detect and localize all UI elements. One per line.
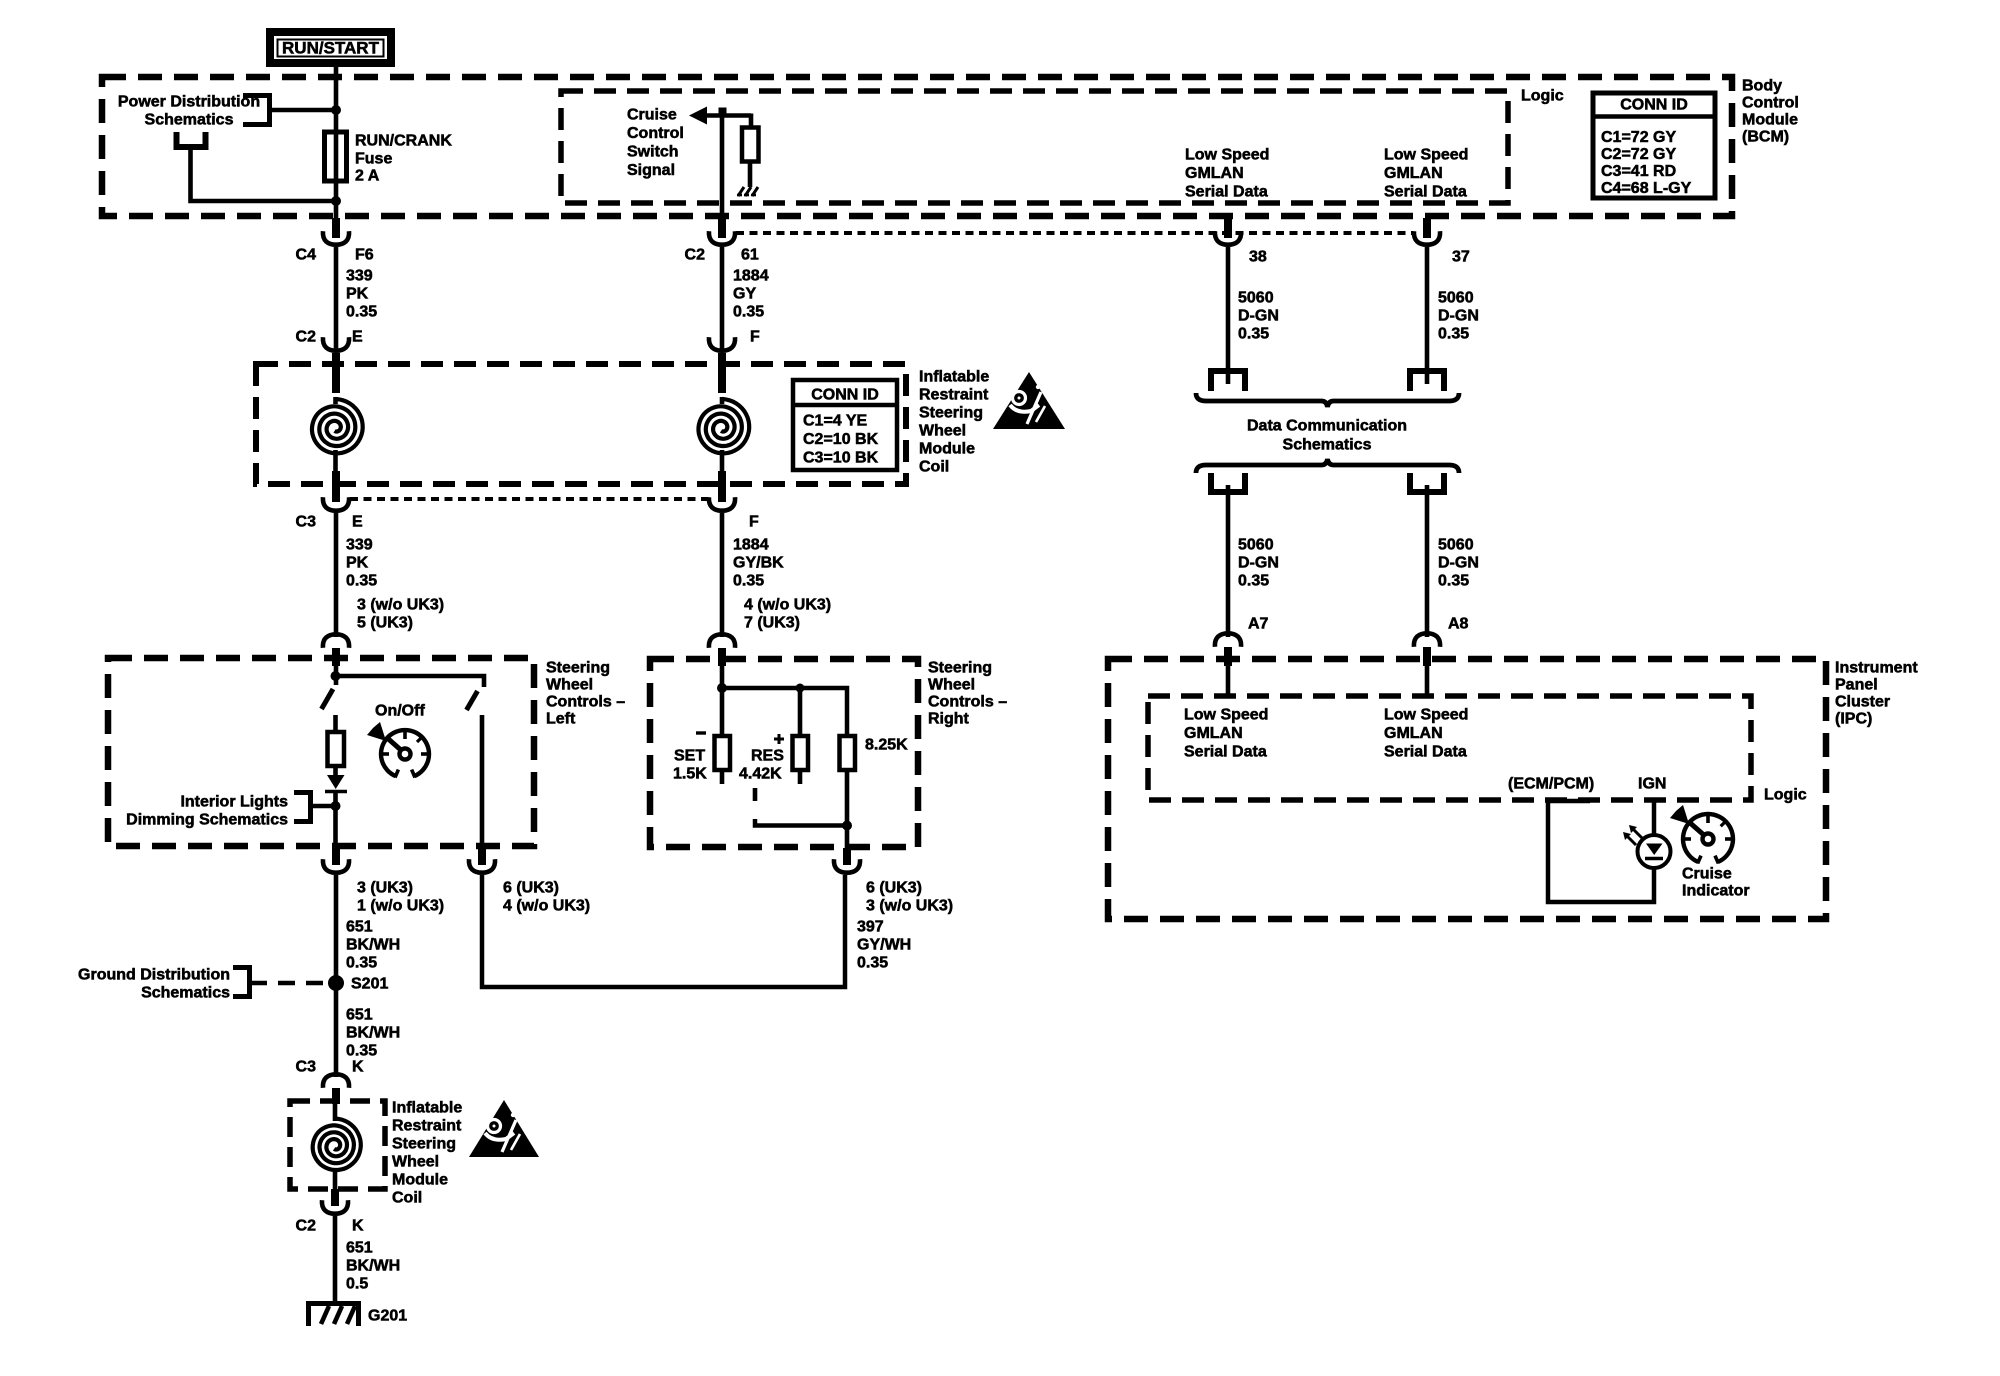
- SRS warning triangle (top): [993, 372, 1065, 429]
- svg-text:C1=72 GY: C1=72 GY: [1601, 129, 1676, 146]
- svg-text:397: 397: [857, 919, 884, 936]
- wire 651 BK/WH 0.5: [333, 1216, 338, 1303]
- underbrace to data comm: [1196, 393, 1459, 407]
- clockspring coil symbol left: [312, 399, 363, 453]
- svg-text:0.35: 0.35: [1438, 573, 1469, 590]
- wire SET branch: [720, 688, 725, 736]
- svg-text:(BCM): (BCM): [1742, 129, 1789, 146]
- connector stub pin37: [1423, 218, 1431, 238]
- svg-text:0.5: 0.5: [346, 1276, 368, 1293]
- svg-text:Power Distribution: Power Distribution: [118, 94, 260, 111]
- svg-text:0.35: 0.35: [1238, 573, 1269, 590]
- clockspring coil symbol bottom: [313, 1119, 361, 1171]
- svg-text:E: E: [352, 514, 363, 531]
- svg-text:339: 339: [346, 537, 373, 554]
- svg-text:GMLAN: GMLAN: [1185, 165, 1244, 182]
- svg-text:GMLAN: GMLAN: [1384, 725, 1443, 742]
- coil connector stub F: [718, 353, 726, 393]
- svg-text:5060: 5060: [1438, 537, 1474, 554]
- junction dot dimming tap: [331, 801, 341, 811]
- svg-text:Serial Data: Serial Data: [1184, 744, 1267, 761]
- fuse RUN/CRANK 2A: [325, 132, 347, 181]
- wire below 8.25K resistor: [845, 770, 850, 826]
- svg-text:Wheel: Wheel: [919, 423, 966, 440]
- svg-text:C2: C2: [296, 329, 317, 346]
- svg-text:Coil: Coil: [392, 1190, 422, 1207]
- overbrace from data comm: [1196, 459, 1459, 473]
- svg-text:Steering: Steering: [392, 1136, 456, 1153]
- connector arc pin38: [1215, 231, 1241, 245]
- svg-text:Signal: Signal: [627, 162, 675, 179]
- svg-text:Right: Right: [928, 711, 970, 728]
- SRS warning triangle (bottom): [469, 1100, 539, 1157]
- svg-text:4 (w/o UK3): 4 (w/o UK3): [744, 597, 831, 614]
- svg-text:Wheel: Wheel: [928, 677, 975, 694]
- svg-text:1 (w/o UK3): 1 (w/o UK3): [357, 898, 444, 915]
- CONN ID table of BCM: [1593, 93, 1715, 198]
- svg-text:Panel: Panel: [1835, 677, 1878, 694]
- svg-text:651: 651: [346, 1240, 373, 1257]
- svg-text:G201: G201: [368, 1308, 407, 1325]
- SET resistor 1.5K: [715, 736, 731, 770]
- junction tick at cruise signal tee: [719, 108, 727, 117]
- svg-text:Data Communication: Data Communication: [1247, 418, 1407, 435]
- svg-text:Restraint: Restraint: [392, 1118, 462, 1135]
- connector stub C4/F6: [332, 218, 340, 238]
- svg-text:Switch: Switch: [627, 144, 679, 161]
- svg-text:8.25K: 8.25K: [865, 737, 908, 754]
- svg-text:D-GN: D-GN: [1238, 555, 1279, 572]
- svg-text:1.5K: 1.5K: [673, 766, 707, 783]
- svg-text:C3: C3: [296, 1059, 317, 1076]
- svg-text:3 (w/o UK3): 3 (w/o UK3): [357, 597, 444, 614]
- svg-text:0.35: 0.35: [857, 955, 888, 972]
- wire 5060 lower-left: [1226, 485, 1231, 637]
- svg-text:Steering: Steering: [928, 660, 992, 677]
- connector stub into SWC-left: [332, 648, 340, 666]
- svg-text:Steering: Steering: [546, 660, 610, 677]
- svg-text:5060: 5060: [1238, 290, 1274, 307]
- connector stub SWC-left out A: [332, 848, 340, 865]
- svg-text:Module: Module: [1742, 112, 1798, 129]
- cruise indicator drive loop: [1548, 799, 1590, 804]
- clockspring coil symbol right: [699, 399, 750, 453]
- svg-text:3 (w/o UK3): 3 (w/o UK3): [866, 898, 953, 915]
- Power Distribution bracket symbol: [243, 96, 270, 125]
- svg-text:339: 339: [346, 268, 373, 285]
- wire into SWC-right: [720, 666, 725, 690]
- coil connector arc (F): [709, 337, 735, 351]
- svg-text:CONN ID: CONN ID: [811, 387, 879, 404]
- connector stub into SWC-right: [718, 648, 726, 666]
- svg-text:F6: F6: [355, 247, 374, 264]
- svg-text:BK/WH: BK/WH: [346, 1025, 400, 1042]
- svg-text:1884: 1884: [733, 537, 769, 554]
- dashed wire bracket to S201: [250, 981, 268, 986]
- wire right branch down: [480, 715, 485, 848]
- svg-text:C3=41 RD: C3=41 RD: [1601, 163, 1676, 180]
- svg-text:Serial Data: Serial Data: [1185, 184, 1268, 201]
- svg-text:PK: PK: [346, 555, 369, 572]
- connector stub out of bottom coil: [331, 1189, 339, 1206]
- svg-text:Inflatable: Inflatable: [392, 1100, 462, 1117]
- coil exit connector arc F: [709, 497, 735, 511]
- svg-text:C2=10 BK: C2=10 BK: [803, 431, 879, 448]
- svg-text:C4: C4: [296, 247, 317, 264]
- svg-text:Restraint: Restraint: [919, 387, 989, 404]
- RES resistor 4.42K: [793, 736, 809, 770]
- svg-text:K: K: [352, 1218, 364, 1235]
- wire 339 PK lower: [334, 513, 339, 637]
- svg-text:0.35: 0.35: [346, 573, 377, 590]
- svg-text:F: F: [749, 514, 759, 531]
- connector stub SWC-left out B: [478, 848, 486, 865]
- svg-text:C3: C3: [296, 514, 317, 531]
- On/Off gauge icon: [381, 730, 429, 776]
- wire resistor to wiper arrow: [333, 766, 338, 776]
- svg-text:F: F: [750, 329, 760, 346]
- svg-text:37: 37: [1452, 249, 1470, 266]
- ground symbol inside BCM: [738, 187, 744, 196]
- wire across top of on/off switch: [336, 676, 485, 687]
- svg-text:Schematics: Schematics: [145, 112, 234, 129]
- svg-text:Serial Data: Serial Data: [1384, 184, 1467, 201]
- svg-text:0.35: 0.35: [346, 304, 377, 321]
- wire 339 PK from C4-F6 down: [334, 247, 339, 349]
- svg-text:4.42K: 4.42K: [739, 766, 782, 783]
- minus sign above SET: [696, 731, 706, 734]
- connector arc SWC-left out B: [469, 859, 495, 873]
- svg-text:3 (UK3): 3 (UK3): [357, 880, 413, 897]
- svg-text:K: K: [352, 1059, 364, 1076]
- junction dot switch common: [842, 821, 852, 831]
- svg-text:5 (UK3): 5 (UK3): [357, 615, 413, 632]
- svg-text:0.35: 0.35: [1438, 326, 1469, 343]
- svg-text:BK/WH: BK/WH: [346, 937, 400, 954]
- wiper arrow onto bar: [327, 775, 345, 789]
- svg-text:C1=4 YE: C1=4 YE: [803, 413, 868, 430]
- svg-text:RUN/START: RUN/START: [282, 39, 380, 58]
- svg-text:C2: C2: [685, 247, 706, 264]
- plus sign above RES: [778, 734, 781, 744]
- svg-text:Indicator: Indicator: [1682, 883, 1750, 900]
- svg-text:BK/WH: BK/WH: [346, 1258, 400, 1275]
- cruise indicator LED diode: [1646, 844, 1663, 856]
- wire 1884 GY/BK lower: [720, 513, 725, 637]
- svg-text:Module: Module: [919, 441, 975, 458]
- svg-text:S201: S201: [351, 976, 388, 993]
- junction dot below fuse: [331, 196, 341, 206]
- coil exit dotted gang line: [350, 497, 708, 501]
- svg-text:PK: PK: [346, 286, 369, 303]
- cruise indicator wedge arrow: [1670, 805, 1689, 824]
- svg-text:(ECM/PCM): (ECM/PCM): [1508, 776, 1594, 793]
- on/off switch blade left: [322, 689, 334, 709]
- wire below SET resistor: [720, 770, 725, 784]
- svg-text:GMLAN: GMLAN: [1184, 725, 1243, 742]
- svg-text:RES: RES: [751, 748, 784, 765]
- svg-text:Left: Left: [546, 711, 576, 728]
- svg-text:CONN ID: CONN ID: [1620, 97, 1688, 114]
- connector arc pin37: [1414, 231, 1440, 245]
- signal arrow pointing left: [689, 107, 707, 125]
- wire from RUN/START down through fuse: [334, 67, 339, 219]
- coil exit connector arc E: [323, 497, 349, 511]
- bottom coil dashed box: [290, 1101, 385, 1189]
- pullup resistor corner wire: [749, 114, 754, 129]
- svg-text:(IPC): (IPC): [1835, 711, 1872, 728]
- connector stub pin38: [1224, 218, 1232, 238]
- Steering Wheel Controls Right dashed box: [650, 659, 918, 847]
- svg-text:6 (UK3): 6 (UK3): [503, 880, 559, 897]
- svg-text:Logic: Logic: [1764, 787, 1807, 804]
- wire resistor to ground: [748, 161, 753, 187]
- svg-text:Module: Module: [392, 1172, 448, 1189]
- splice pack terminal lower-left: [1211, 473, 1245, 492]
- Body Control Module outer dashed box: [102, 77, 1732, 216]
- wire 651 BK/WH upper: [334, 875, 339, 1077]
- svg-text:Control: Control: [627, 125, 684, 142]
- splice S201 dot: [328, 975, 344, 991]
- 8.25K resistor: [840, 736, 856, 770]
- svg-text:0.35: 0.35: [346, 1043, 377, 1060]
- svg-text:Cruise: Cruise: [1682, 866, 1732, 883]
- svg-text:GY: GY: [733, 286, 756, 303]
- dimmer resistor: [328, 732, 345, 766]
- svg-text:Controls –: Controls –: [546, 694, 625, 711]
- bracket under Schematics label: [177, 132, 206, 147]
- connector arc SWC-left out A: [323, 859, 349, 873]
- connector stub C2/61: [718, 218, 726, 238]
- IPC inner logic dashed box: [1148, 696, 1751, 800]
- connector arc into SWC-right: [709, 634, 735, 648]
- wire 5060 left down to splice pack: [1226, 247, 1231, 384]
- svg-text:Dimming Schematics: Dimming Schematics: [126, 812, 288, 829]
- coil exit stub E: [332, 471, 340, 502]
- svg-text:GY/WH: GY/WH: [857, 937, 911, 954]
- wire SWC-left B to SWC-right join: [482, 875, 845, 987]
- connector arc into SWC-left: [323, 634, 349, 648]
- junction dot SWC-left: [331, 671, 341, 681]
- wire from arrow to pullup resistor: [704, 113, 751, 118]
- connector C2 dotted gang line: [736, 231, 1413, 235]
- Inflatable Restraint Steering Wheel Module Coil dashed box: [256, 364, 906, 484]
- wire 1884 GY down: [720, 247, 725, 349]
- svg-text:C2=72 GY: C2=72 GY: [1601, 146, 1676, 163]
- wire left branch to dimmer resistor: [333, 715, 338, 732]
- splice pack terminal upper-right: [1410, 371, 1444, 391]
- connector arc SWC-right out: [834, 859, 860, 873]
- wire A7 into IPC: [1226, 666, 1231, 698]
- splice pack terminal lower-right: [1410, 473, 1444, 492]
- svg-text:RUN/CRANK: RUN/CRANK: [355, 133, 452, 150]
- svg-text:0.35: 0.35: [1238, 326, 1269, 343]
- connector stub into bottom coil: [332, 1088, 340, 1104]
- connector arc into bottom coil: [323, 1074, 349, 1088]
- svg-text:Inflatable: Inflatable: [919, 369, 989, 386]
- junction dot above fuse: [331, 105, 341, 115]
- svg-text:Schematics: Schematics: [1283, 437, 1372, 454]
- svg-text:651: 651: [346, 1007, 373, 1024]
- wire into SWC-left to node: [334, 666, 339, 685]
- svg-text:C2: C2: [296, 1218, 317, 1235]
- wire A8 into IPC: [1425, 666, 1430, 698]
- svg-text:7 (UK3): 7 (UK3): [744, 615, 800, 632]
- wire cruise signal down from tee: [720, 115, 725, 222]
- svg-text:Cluster: Cluster: [1835, 694, 1890, 711]
- svg-text:D-GN: D-GN: [1438, 555, 1479, 572]
- splice pack terminal upper-left: [1211, 371, 1245, 391]
- svg-text:Cruise: Cruise: [627, 107, 677, 124]
- svg-text:5060: 5060: [1438, 290, 1474, 307]
- svg-text:Control: Control: [1742, 95, 1799, 112]
- svg-text:C4=68 L-GY: C4=68 L-GY: [1601, 180, 1692, 197]
- switch common L wire: [755, 819, 847, 826]
- svg-text:6 (UK3): 6 (UK3): [866, 880, 922, 897]
- svg-text:On/Off: On/Off: [375, 703, 425, 720]
- svg-text:5060: 5060: [1238, 537, 1274, 554]
- svg-text:SET: SET: [674, 748, 705, 765]
- svg-text:1884: 1884: [733, 268, 769, 285]
- RUN/START hot-in-run label box: [270, 32, 391, 63]
- svg-text:4 (w/o UK3): 4 (w/o UK3): [503, 898, 590, 915]
- wire SWC-right output: [845, 825, 850, 848]
- connector arc A8: [1414, 633, 1440, 647]
- svg-text:GMLAN: GMLAN: [1384, 165, 1443, 182]
- resistor bus across: [722, 688, 847, 736]
- svg-text:Low Speed: Low Speed: [1384, 147, 1468, 164]
- svg-text:651: 651: [346, 919, 373, 936]
- svg-text:Wheel: Wheel: [546, 677, 593, 694]
- on/off switch blade right: [467, 691, 478, 710]
- svg-text:D-GN: D-GN: [1438, 308, 1479, 325]
- svg-text:Steering: Steering: [919, 405, 983, 422]
- svg-text:Fuse: Fuse: [355, 151, 392, 168]
- svg-text:A8: A8: [1448, 616, 1469, 633]
- wire from Schematics bracket to node below fuse: [191, 146, 337, 201]
- connector stub SWC-right out: [843, 848, 851, 865]
- svg-text:Low Speed: Low Speed: [1184, 707, 1268, 724]
- svg-text:Low Speed: Low Speed: [1384, 707, 1468, 724]
- svg-text:D-GN: D-GN: [1238, 308, 1279, 325]
- connector stub A7: [1224, 647, 1232, 666]
- wire 5060 lower-right: [1425, 485, 1430, 637]
- svg-text:E: E: [352, 329, 363, 346]
- LED emission arrows: [1633, 829, 1642, 838]
- junction dot SWC-right entry: [717, 683, 727, 693]
- svg-text:A7: A7: [1248, 616, 1269, 633]
- svg-text:IGN: IGN: [1638, 776, 1666, 793]
- svg-text:Instrument: Instrument: [1835, 660, 1918, 677]
- svg-text:Coil: Coil: [919, 459, 949, 476]
- Instrument Panel Cluster outer dashed box: [1108, 659, 1826, 919]
- svg-text:38: 38: [1249, 249, 1267, 266]
- CONN ID table of coil module: [793, 380, 897, 470]
- cruise indicator LED circle: [1638, 835, 1671, 868]
- connector arc out of bottom coil: [322, 1200, 348, 1214]
- svg-text:Serial Data: Serial Data: [1384, 744, 1467, 761]
- svg-text:0.35: 0.35: [733, 304, 764, 321]
- Steering Wheel Controls Left dashed box: [108, 658, 534, 846]
- svg-text:Low Speed: Low Speed: [1185, 147, 1269, 164]
- svg-text:Wheel: Wheel: [392, 1154, 439, 1171]
- BCM internal Logic dashed box (cruise switch signal): [561, 91, 1508, 203]
- coil exit stub F: [718, 471, 726, 502]
- switch common stub: [753, 788, 758, 801]
- svg-text:61: 61: [741, 247, 759, 264]
- wire below RES resistor: [798, 770, 803, 784]
- connector arc C4/F6: [323, 231, 349, 245]
- svg-text:GY/BK: GY/BK: [733, 555, 784, 572]
- cruise indicator gauge icon: [1683, 814, 1733, 862]
- svg-text:Body: Body: [1742, 78, 1782, 95]
- svg-text:2 A: 2 A: [355, 168, 380, 185]
- svg-text:C3=10 BK: C3=10 BK: [803, 450, 879, 467]
- On/Off wedge arrow: [367, 722, 386, 741]
- wire 5060 right down to splice pack: [1425, 247, 1430, 384]
- junction dot RES branch: [796, 684, 805, 693]
- Interior Lights bracket: [294, 793, 311, 822]
- svg-text:Schematics: Schematics: [141, 985, 230, 1002]
- svg-text:Interior Lights: Interior Lights: [180, 794, 288, 811]
- svg-text:Ground Distribution: Ground Distribution: [78, 967, 230, 984]
- coil connector stub E: [332, 353, 340, 393]
- ground G201 symbol: [309, 1304, 359, 1327]
- wire bracket to dimming tap: [311, 804, 336, 809]
- coil connector arc (E): [323, 337, 349, 351]
- connector arc C2/61: [709, 231, 735, 245]
- wire RES branch: [798, 688, 803, 736]
- svg-text:Logic: Logic: [1521, 88, 1564, 105]
- Ground Distribution bracket: [233, 968, 250, 997]
- pullup resistor: [742, 128, 759, 162]
- connector stub A8: [1423, 647, 1431, 666]
- svg-text:0.35: 0.35: [733, 573, 764, 590]
- wire from Power Distribution bracket to node: [270, 108, 337, 113]
- connector arc A7: [1215, 633, 1241, 647]
- wire below wiper: [333, 791, 338, 848]
- svg-text:Controls –: Controls –: [928, 694, 1007, 711]
- svg-text:0.35: 0.35: [346, 955, 377, 972]
